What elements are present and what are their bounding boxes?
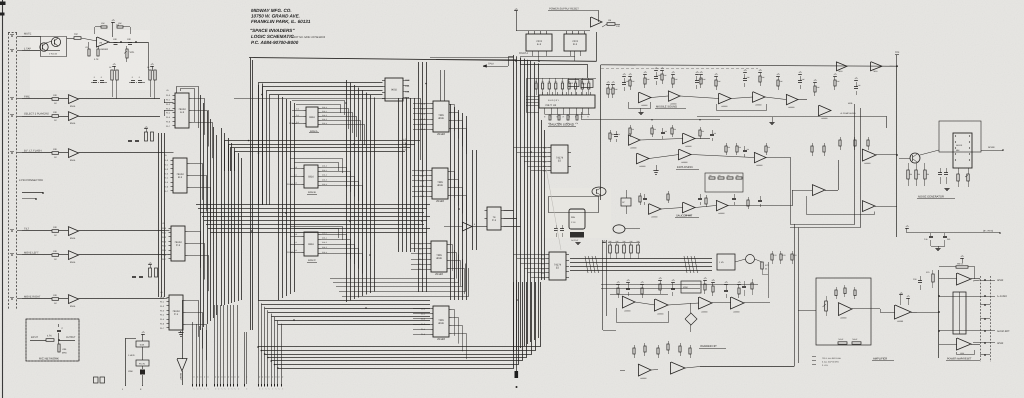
output connector dashed [980, 276, 982, 362]
resistor stubs [811, 146, 813, 152]
wire missile chain [651, 96, 668, 98]
svg-text:9N16: 9N16 [70, 261, 76, 264]
wire bus group H8 [258, 347, 260, 384]
svg-text:MFD: MFD [62, 352, 67, 355]
svg-text:NOISE: NOISE [956, 144, 963, 147]
capacitor C2 [128, 42, 132, 44]
wire bus V4 [346, 80, 348, 302]
IC 25140 [433, 101, 449, 132]
IC 25140 [432, 168, 448, 199]
resistor hatches [585, 256, 588, 273]
svg-text:2. ALL CAP IN MFD: 2. ALL CAP IN MFD [822, 361, 839, 364]
connector pin MOVE LEFT [11, 254, 13, 256]
wire bus group H6 [196, 204, 430, 206]
svg-text:P1-4: P1-4 [166, 112, 170, 115]
wire bus V7 [450, 104, 452, 300]
svg-text:9N16: 9N16 [70, 159, 76, 162]
wire Q1-Q2 block [40, 36, 67, 57]
svg-text:LM3900: LM3900 [840, 317, 847, 320]
capacitor mix [742, 286, 746, 288]
wire MOVE RIGHT to mux [79, 298, 165, 300]
wire op-amp output [109, 42, 148, 44]
wire [581, 10, 599, 12]
svg-text:4036: 4036 [438, 322, 444, 325]
op-amp saucer hit 2 [683, 202, 696, 213]
resistor input MOVE RIGHT [52, 298, 59, 301]
svg-text:TIP: TIP [74, 33, 78, 36]
wire bus H4 ext [234, 99, 421, 161]
+5 supply [150, 66, 154, 68]
svg-text:CL-0: CL-0 [421, 102, 425, 105]
wire invader out to amp [700, 366, 794, 368]
resistor DAC bank [608, 242, 640, 244]
wire rail [938, 270, 940, 358]
wire SELECT 2 PLAYERS to mux [79, 116, 161, 118]
component block right [621, 198, 631, 206]
svg-text:E5: E5 [556, 267, 560, 270]
component small caps [554, 228, 558, 230]
capacitor C1 [114, 42, 118, 44]
wire fan to bus [514, 147, 549, 149]
svg-text:NOISE GENERATOR: NOISE GENERATOR [918, 196, 944, 199]
svg-text:P1-0: P1-0 [162, 227, 166, 230]
IC 9316 RAM B [304, 165, 318, 188]
wire [852, 308, 880, 310]
transistor Q2 [51, 37, 60, 46]
capacitor C50 [918, 280, 922, 282]
svg-text:LM3900: LM3900 [685, 214, 692, 217]
buffer gate B.F. LT. FLASH [68, 149, 79, 158]
svg-text:10750 W. GRAND AVE.: 10750 W. GRAND AVE. [251, 14, 300, 19]
wire sound box left [600, 65, 602, 200]
wire bus V3 [278, 95, 280, 300]
svg-text:LM3900: LM3900 [630, 147, 637, 150]
pot component [746, 255, 755, 264]
potentiometer VOL [126, 49, 128, 58]
IC 74174 E-5 lower [549, 252, 566, 280]
svg-text:PART NO. M051-00739-B005: PART NO. M051-00739-B005 [292, 36, 326, 39]
capacitor pair [93, 80, 97, 82]
ground [575, 242, 580, 244]
wire bus V5 [398, 98, 400, 252]
resistor input FIRE [52, 98, 59, 101]
wire 9316 inputs [292, 110, 304, 112]
op-amp saucer hit 3 [716, 200, 728, 211]
svg-text:SPKR: SPKR [997, 279, 1004, 282]
svg-text:EXPLOSION: EXPLOSION [677, 166, 693, 169]
svg-text:E-3: E-3 [537, 43, 542, 46]
svg-text:POWER SUPPLY RESET: POWER SUPPLY RESET [549, 8, 579, 11]
svg-text:MSB: MSB [848, 102, 853, 105]
wire noise mix rows [601, 284, 758, 286]
svg-text:LOGIC SCHEMATIC: LOGIC SCHEMATIC [251, 34, 294, 39]
junction dots H1 [515, 60, 517, 62]
resistor R5 [117, 26, 123, 28]
wire [148, 42, 150, 70]
svg-text:COL-3: COL-3 [322, 246, 327, 249]
wire loop [527, 79, 597, 113]
feedback loop power amp [957, 350, 975, 355]
wire [620, 370, 625, 372]
connector pad [94, 377, 99, 383]
ground [653, 170, 658, 172]
svg-text:LM3900: LM3900 [821, 117, 828, 120]
svg-text:TP10: TP10 [488, 63, 494, 66]
svg-text:9316: 9316 [308, 243, 314, 246]
wire sound box top [601, 65, 897, 66]
+5 supply [960, 258, 964, 260]
wire MUTE [22, 36, 40, 38]
wire FIRE to mux [79, 98, 161, 100]
wire bus group H4 [259, 83, 383, 206]
svg-text:P1-7: P1-7 [162, 258, 166, 261]
svg-text:"SPACE INVADERS": "SPACE INVADERS" [250, 28, 295, 33]
svg-text:CL-2: CL-2 [421, 113, 425, 116]
resistor network block [581, 80, 593, 88]
capacitor C45 [929, 236, 933, 238]
svg-text:25140: 25140 [437, 337, 445, 341]
svg-text:P1-0: P1-0 [166, 94, 170, 97]
R/C network box [26, 319, 79, 361]
potentiometer [967, 174, 969, 181]
svg-text:LM3900: LM3900 [864, 162, 871, 165]
sheet edge blob [0, 13, 5, 16]
wire bus group H5 [225, 141, 421, 172]
wire bus V2 [258, 85, 260, 300]
wire rail [516, 30, 590, 32]
+5 supply [514, 10, 518, 12]
op-amp invader 4 [731, 297, 745, 309]
wire MOVE LEFT to mux [79, 254, 165, 256]
wire mux outputs [190, 164, 203, 200]
svg-text:COL-0: COL-0 [322, 165, 327, 168]
op-amp amplifier A [838, 303, 852, 316]
+5 supply [905, 228, 909, 230]
resistor input SELECT 2 PLAYERS [52, 115, 59, 118]
wire [939, 278, 957, 280]
svg-text:76477 H2: 76477 H2 [545, 104, 557, 107]
svg-text:AMPLIFIER: AMPLIFIER [873, 358, 887, 361]
amplifier box [816, 278, 871, 345]
potentiometer amp [825, 301, 828, 311]
op-amp explosion 3 [637, 153, 650, 164]
ground [769, 122, 774, 124]
resistor input MOVE LEFT [52, 254, 59, 257]
svg-text:CL-1: CL-1 [421, 108, 425, 111]
svg-text:POWER AMP/RESET: POWER AMP/RESET [947, 358, 972, 361]
blob mark [515, 371, 519, 378]
op-amp missile 2 [668, 91, 680, 102]
svg-text:A. AUDIO: A. AUDIO [997, 295, 1007, 298]
test point TP arrow [177, 359, 187, 372]
svg-text:P1-7: P1-7 [166, 125, 170, 128]
wire 25140 top stubs [440, 70, 442, 101]
svg-text:P1-0: P1-0 [160, 296, 164, 299]
wire 1 TAP [22, 50, 40, 52]
svg-text:N L R Q R Y: N L R Q R Y [548, 99, 560, 102]
svg-text:COL-2: COL-2 [322, 241, 327, 244]
wire box verticals to amplifier [794, 224, 796, 367]
svg-text:D-1: D-1 [296, 114, 299, 117]
wire 9316 inputs [290, 236, 302, 238]
svg-text:LM3900: LM3900 [640, 377, 647, 380]
wire loop over mux A-3 [177, 87, 199, 129]
op-amp U10 [812, 185, 825, 196]
svg-text:100K: 100K [128, 370, 133, 373]
svg-text:LM3900: LM3900 [639, 165, 646, 168]
wire bundle to edge connector [192, 322, 194, 384]
svg-text:P.C. A084-90700-B000: P.C. A084-90700-B000 [251, 40, 299, 45]
svg-text:LM3900: LM3900 [100, 48, 109, 51]
resistor network block [568, 80, 579, 87]
IC 7474 D-2 [566, 31, 568, 34]
IC 7474 E-3 [528, 31, 530, 34]
ground [178, 332, 183, 334]
transistor Q noise [910, 153, 920, 163]
svg-text:R75: R75 [774, 254, 777, 257]
resistor to gnd [58, 340, 60, 344]
IC 74153 A-3 [175, 93, 189, 128]
svg-text:12K: 12K [616, 25, 620, 28]
wire [164, 99, 166, 103]
svg-text:R75: R75 [926, 271, 929, 274]
resistor zigzags [907, 170, 909, 179]
svg-text:MISSILE SOUND: MISSILE SOUND [656, 106, 677, 109]
IC 9602 F4 [385, 78, 403, 101]
wire loop gray zone [549, 197, 599, 214]
wire [532, 51, 534, 56]
connector J1 strip [8, 33, 10, 310]
svg-text:9N16: 9N16 [70, 105, 76, 108]
resistor bank [111, 70, 113, 80]
wire bus V10 [541, 120, 543, 280]
svg-text:CL-2: CL-2 [420, 180, 424, 183]
connector pin NC [984, 354, 986, 356]
connector pin MUTE [11, 35, 13, 37]
svg-text:740UF: 740UF [852, 338, 858, 341]
+5 supply [141, 334, 145, 336]
IC 74153 B-3 [173, 158, 187, 193]
component stubs low [633, 348, 635, 354]
op-amp U11 [862, 201, 875, 212]
wire TILT to mux [79, 230, 165, 232]
svg-text:P1-3: P1-3 [160, 309, 164, 312]
svg-text:25140: 25140 [436, 199, 444, 203]
wire bus V6 [418, 62, 420, 292]
svg-text:LM380: LM380 [897, 320, 904, 323]
svg-text:LM3900: LM3900 [670, 103, 677, 106]
svg-text:P1-1: P1-1 [166, 99, 170, 102]
svg-text:R/C NETWORK: R/C NETWORK [39, 357, 59, 361]
resistor R2 [88, 49, 90, 56]
svg-text:9N16: 9N16 [70, 305, 76, 308]
svg-text:LM3900: LM3900 [657, 312, 664, 315]
op-amp invader 2 [655, 299, 669, 311]
wire 25140 outputs [450, 245, 453, 271]
svg-text:555: 555 [571, 216, 576, 219]
title text [250, 8, 326, 45]
connector pin SPKR [984, 342, 986, 344]
svg-text:P1-4: P1-4 [162, 245, 166, 248]
component mixer block [681, 281, 701, 293]
svg-text:LM3900: LM3900 [701, 310, 708, 313]
svg-text:E5: E5 [558, 160, 562, 163]
svg-text:P1-5: P1-5 [160, 318, 164, 321]
wire reset out [596, 32, 598, 61]
op-amp invader low 1 [638, 364, 651, 376]
svg-text:LM3900: LM3900 [788, 106, 795, 109]
wire [907, 232, 1000, 234]
ground [935, 248, 940, 250]
op-amp U2 [591, 17, 603, 27]
wire TP10 [483, 66, 508, 68]
resistor R73 [761, 262, 763, 269]
buffer gate [462, 222, 472, 231]
wire inner vertical [790, 157, 792, 224]
capacitor [58, 333, 60, 340]
svg-text:LM3900: LM3900 [718, 212, 725, 215]
tick marks [812, 356, 816, 358]
resistor R3 [97, 49, 99, 56]
svg-text:RES: RES [569, 82, 574, 85]
wire mux outputs [188, 232, 201, 268]
connector pin FIRE [11, 98, 13, 100]
svg-text:P1-1: P1-1 [160, 301, 164, 304]
op-amp missile 1 [639, 92, 652, 103]
svg-text:1 MEG: 1 MEG [128, 354, 135, 357]
wire [772, 205, 792, 207]
wire inner box top [601, 68, 758, 70]
op-amp invader 3 [699, 297, 713, 309]
wire [520, 64, 588, 66]
svg-text:COL-2: COL-2 [322, 114, 327, 117]
resistor R feedback [607, 23, 615, 26]
svg-text:C-1: C-1 [174, 313, 179, 316]
connector pad [100, 377, 105, 383]
svg-text:OUTPUT: OUTPUT [66, 336, 76, 339]
+5 supply [148, 264, 152, 266]
svg-text:COL-0: COL-0 [322, 232, 327, 235]
component stubs missile [607, 88, 609, 94]
wire [526, 112, 539, 114]
resistor bottom row [549, 115, 551, 120]
resistor bank [149, 70, 151, 80]
svg-text:P1-5: P1-5 [166, 116, 170, 119]
svg-text:J: J [122, 388, 123, 391]
wire loop above [290, 227, 343, 241]
wire bank drop [112, 91, 114, 97]
connector pin SELECT 2 PLAYERS [11, 115, 13, 117]
svg-text:TP4: TP4 [895, 51, 900, 54]
op-amp missile 4 [753, 92, 766, 103]
svg-text:FRANKLIN PARK, IL. 60131: FRANKLIN PARK, IL. 60131 [251, 19, 311, 24]
svg-text:9316: 9316 [308, 176, 314, 179]
wire bank drop [150, 91, 152, 97]
wire [973, 280, 980, 281]
connector pin 1 TAP [11, 50, 13, 52]
wire 7442 outputs [504, 210, 514, 212]
svg-text:9N16: 9N16 [70, 237, 76, 240]
svg-text:+5 COMP AUDIO: +5 COMP AUDIO [840, 112, 856, 115]
resistor input TILT [52, 230, 59, 233]
svg-text:COL-0: COL-0 [322, 106, 327, 109]
wire [860, 236, 897, 238]
capacitor [944, 172, 948, 174]
svg-text:COL-3: COL-3 [322, 118, 327, 121]
sheet edge line [2, 0, 4, 398]
svg-text:5.6K: 5.6K [140, 344, 145, 347]
wire noise out [981, 150, 1003, 152]
wire 9316 inputs [290, 168, 302, 170]
wire saucer chain [661, 208, 683, 210]
wire mux outputs [186, 301, 199, 337]
dark component [570, 232, 584, 238]
wire loop above [290, 159, 343, 174]
svg-text:COL-1: COL-1 [322, 169, 327, 172]
svg-text:P1-2: P1-2 [166, 103, 170, 106]
svg-text:4036: 4036 [437, 184, 443, 187]
connector pin A. AUDIO [984, 295, 986, 297]
svg-text:R75: R75 [783, 254, 786, 257]
svg-text:P1-3: P1-3 [162, 240, 166, 243]
buffer gate SELECT 2 PLAYERS [68, 112, 79, 121]
buffer gate [871, 62, 883, 71]
buffer gate TILT [68, 227, 79, 236]
IC MM5837 noise [953, 133, 972, 168]
wire 9316 outputs [321, 168, 347, 188]
svg-text:CL-1: CL-1 [421, 313, 425, 316]
wire 25140 outputs [452, 105, 455, 131]
wire bus H1 [249, 58, 597, 62]
capacitor pair [128, 140, 132, 142]
resistor row below [838, 342, 847, 344]
svg-text:4.7K: 4.7K [47, 335, 52, 338]
wire box [790, 104, 855, 225]
svg-text:LM3900: LM3900 [651, 216, 658, 219]
wire bus V0a [200, 95, 202, 330]
op-amp missile 3 [719, 93, 732, 104]
svg-text:R75: R75 [794, 254, 797, 257]
wire bus V0b [221, 128, 223, 306]
svg-text:745UF: 745UF [838, 338, 844, 341]
wire 25140 outputs [452, 310, 455, 336]
buffer gate MOVE LEFT [68, 251, 79, 260]
svg-text:25140: 25140 [437, 132, 445, 136]
svg-text:D-2: D-2 [573, 43, 578, 46]
IC 25140 [431, 241, 447, 272]
svg-text:P1-6: P1-6 [162, 253, 166, 256]
wire input [30, 340, 46, 342]
wire left bundle [602, 240, 604, 330]
svg-text:4036: 4036 [438, 117, 444, 120]
op-amp driver bottom Q4 [957, 338, 972, 350]
svg-text:4036: 4036 [436, 257, 442, 260]
resistor row above 76477 [535, 83, 537, 89]
IC 76477 H2 sound chip [539, 95, 595, 108]
svg-text:MUTE: MUTE [24, 33, 32, 36]
svg-text:R73: R73 [765, 264, 768, 267]
wire loop above [292, 101, 345, 116]
svg-text:P1-7: P1-7 [160, 327, 164, 330]
resistor R4 [101, 26, 107, 28]
wire [899, 158, 910, 160]
edge connector labels [192, 384, 194, 387]
svg-text:LM3900: LM3900 [624, 309, 631, 312]
svg-text:LM3900: LM3900 [756, 164, 763, 167]
connector pin MOVE RIGHT [11, 298, 13, 300]
wire stub 4-pin [22, 192, 43, 194]
svg-text:NOISE: NOISE [988, 146, 995, 149]
